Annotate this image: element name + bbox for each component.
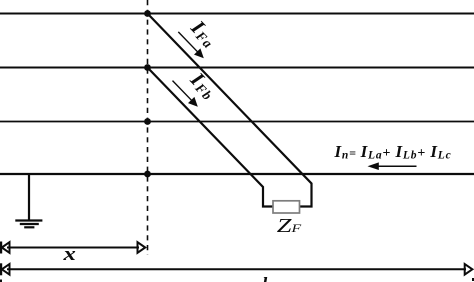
- ground lead wire: [28, 174, 30, 220]
- wire fault branch phase a: [148, 14, 312, 207]
- current arrow IFb: [173, 81, 198, 107]
- wire fault branch phase b: [148, 68, 274, 207]
- dimension line l: [1, 263, 472, 275]
- fault location dashed line: [147, 0, 149, 255]
- neutral conductor: [0, 173, 474, 175]
- current arrow In: [368, 162, 417, 170]
- resistor ZF: [273, 201, 300, 213]
- dimension line x: [1, 242, 145, 254]
- current arrow IFa: [178, 32, 204, 58]
- tick mark bottom left: [0, 280, 2, 282]
- phase b conductor: [0, 67, 474, 69]
- node neutral tap: [144, 171, 151, 178]
- node phase b tap: [144, 64, 151, 71]
- phase a conductor: [0, 13, 474, 15]
- phase c conductor: [0, 121, 474, 123]
- node phase a tap: [144, 10, 151, 17]
- node phase c tap: [144, 118, 151, 125]
- ground: [15, 221, 42, 228]
- svg-text:l: l: [262, 275, 268, 282]
- svg-text:x: x: [62, 243, 75, 265]
- tick mark bottom right: [472, 278, 474, 281]
